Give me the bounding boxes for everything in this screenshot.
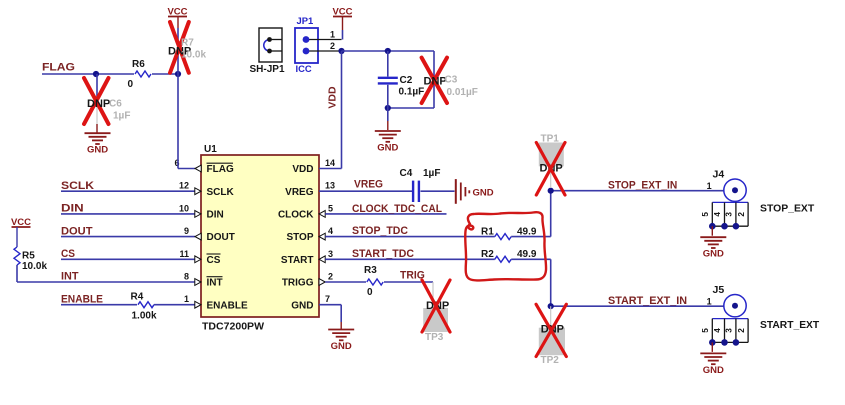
svg-text:GND: GND [473, 187, 494, 198]
svg-text:10.0k: 10.0k [181, 50, 206, 61]
svg-text:TDC7200PW: TDC7200PW [202, 322, 265, 333]
svg-text:4: 4 [328, 226, 333, 236]
svg-text:1: 1 [707, 181, 712, 191]
svg-text:START_EXT_IN: START_EXT_IN [608, 295, 687, 307]
svg-text:8: 8 [184, 272, 189, 282]
svg-text:7: 7 [325, 294, 330, 304]
svg-text:JP1: JP1 [297, 15, 314, 26]
svg-text:DIN: DIN [61, 203, 84, 215]
svg-text:TRIGG: TRIGG [282, 278, 314, 289]
svg-text:10: 10 [179, 203, 189, 213]
svg-text:R6: R6 [132, 59, 145, 70]
svg-text:2: 2 [330, 41, 335, 51]
svg-text:DNP: DNP [87, 98, 110, 110]
svg-text:GND: GND [377, 143, 398, 154]
svg-text:9: 9 [184, 226, 189, 236]
svg-text:49.9: 49.9 [517, 249, 537, 260]
svg-text:VREG: VREG [285, 187, 314, 198]
svg-text:C2: C2 [400, 75, 413, 86]
svg-text:3: 3 [725, 328, 734, 333]
svg-text:R1: R1 [481, 227, 494, 238]
svg-text:1µF: 1µF [423, 168, 440, 179]
svg-text:DOUT: DOUT [61, 225, 93, 237]
svg-text:11: 11 [179, 249, 189, 259]
svg-text:1: 1 [184, 294, 189, 304]
svg-text:3: 3 [725, 212, 734, 217]
svg-text:VDD: VDD [327, 86, 339, 109]
svg-text:GND: GND [703, 249, 724, 260]
svg-text:R2: R2 [481, 249, 494, 260]
svg-text:SCLK: SCLK [61, 180, 94, 192]
svg-text:5: 5 [701, 212, 710, 217]
svg-text:GND: GND [331, 341, 352, 352]
svg-text:J5: J5 [713, 284, 725, 296]
svg-text:TP2: TP2 [541, 355, 560, 366]
svg-text:START: START [281, 255, 314, 266]
svg-text:U1: U1 [204, 144, 217, 155]
svg-text:2: 2 [737, 328, 746, 333]
svg-text:4: 4 [713, 212, 722, 217]
svg-text:INT: INT [61, 271, 79, 283]
svg-text:ICC: ICC [296, 63, 312, 74]
svg-text:R5: R5 [22, 251, 35, 262]
svg-text:GND: GND [291, 300, 313, 311]
svg-text:13: 13 [325, 181, 335, 191]
svg-text:FLAG: FLAG [207, 164, 234, 175]
svg-text:2: 2 [737, 212, 746, 217]
svg-text:4: 4 [713, 328, 722, 333]
svg-text:R3: R3 [364, 265, 377, 276]
svg-text:VREG: VREG [354, 179, 383, 191]
svg-text:ENABLE: ENABLE [207, 300, 248, 311]
svg-text:1µF: 1µF [113, 111, 130, 122]
svg-text:START_TDC: START_TDC [352, 248, 414, 260]
svg-text:VDD: VDD [292, 164, 313, 175]
svg-text:STOP_TDC: STOP_TDC [352, 225, 408, 237]
svg-text:R7: R7 [181, 38, 194, 49]
svg-text:0: 0 [128, 79, 134, 90]
svg-text:ENABLE: ENABLE [61, 293, 103, 305]
svg-text:FLAG: FLAG [42, 62, 75, 74]
svg-text:C6: C6 [109, 98, 122, 109]
svg-text:START_EXT: START_EXT [760, 319, 820, 331]
svg-text:0.1µF: 0.1µF [399, 87, 425, 98]
svg-text:STOP: STOP [286, 232, 313, 243]
svg-text:1: 1 [330, 30, 335, 40]
svg-text:TP3: TP3 [425, 332, 444, 343]
svg-text:10.0k: 10.0k [22, 261, 47, 272]
svg-text:1: 1 [707, 297, 712, 307]
svg-text:DOUT: DOUT [207, 232, 235, 243]
svg-text:DIN: DIN [207, 210, 224, 221]
svg-text:DNP: DNP [424, 76, 447, 88]
svg-text:12: 12 [179, 181, 189, 191]
svg-text:SCLK: SCLK [207, 187, 235, 198]
svg-text:14: 14 [325, 158, 335, 168]
svg-text:5: 5 [701, 328, 710, 333]
svg-text:2: 2 [328, 272, 333, 282]
svg-text:R4: R4 [131, 292, 144, 303]
svg-text:C4: C4 [400, 168, 413, 179]
svg-text:49.9: 49.9 [517, 227, 537, 238]
svg-text:CLOCK: CLOCK [278, 210, 314, 221]
svg-text:STOP_EXT_IN: STOP_EXT_IN [608, 179, 677, 191]
svg-text:5: 5 [328, 203, 333, 213]
svg-text:SH-JP1: SH-JP1 [250, 64, 285, 75]
svg-text:J4: J4 [713, 169, 725, 181]
svg-text:CS: CS [61, 248, 75, 260]
svg-text:GND: GND [703, 365, 724, 376]
svg-text:TP1: TP1 [541, 133, 560, 144]
svg-text:3: 3 [328, 249, 333, 259]
svg-text:0: 0 [367, 287, 373, 298]
svg-text:1.00k: 1.00k [132, 311, 157, 322]
svg-text:CS: CS [207, 255, 221, 266]
svg-text:C3: C3 [445, 75, 458, 86]
svg-text:GND: GND [87, 145, 108, 156]
svg-text:0.01µF: 0.01µF [447, 87, 478, 98]
svg-text:STOP_EXT: STOP_EXT [760, 203, 815, 215]
svg-text:CLOCK_TDC_CAL: CLOCK_TDC_CAL [352, 203, 442, 215]
svg-text:INT: INT [207, 278, 223, 289]
